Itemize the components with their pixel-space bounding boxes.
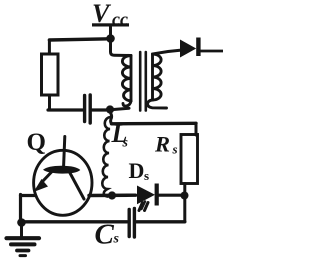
transformer T1 primary coil <box>122 56 131 107</box>
ground symbol <box>7 226 40 256</box>
transistor Q base lead <box>64 137 65 167</box>
inductor Ls squiggle <box>102 117 110 197</box>
svg-text:s: s <box>144 168 149 183</box>
resistor Rs <box>181 135 198 184</box>
node base junction dot <box>106 105 114 113</box>
wire Vcc stub <box>109 27 112 35</box>
Ls label <box>111 119 129 151</box>
tick marks below Ds <box>139 202 148 211</box>
transformer T1 secondary coil <box>148 54 167 108</box>
wire base node down squiggle <box>110 113 111 124</box>
wire after D1 <box>201 50 223 53</box>
wire Rs bottom stub <box>183 184 186 222</box>
node Rs bottom junction dot <box>181 192 189 200</box>
wire secondary top to diode <box>154 50 181 54</box>
wire Ds to Rs bottom node <box>159 194 181 197</box>
diode Ds <box>137 184 159 206</box>
wire top horizontal <box>49 39 110 40</box>
transistor Q circle <box>34 150 92 215</box>
wire to capacitor C1 <box>48 108 83 111</box>
wire horizontal to Rs <box>112 122 197 126</box>
wire bottom horizontal <box>22 220 128 223</box>
wire emitter to left <box>21 194 36 197</box>
svg-text:Q: Q <box>27 129 46 156</box>
Rs label <box>154 132 178 157</box>
transistor Q collector line <box>70 173 84 199</box>
wire corner into Rs top <box>195 123 198 135</box>
svg-text:s: s <box>113 232 120 247</box>
wire Cs right to Rs bottom <box>137 220 185 223</box>
wire R1 bottom stub <box>48 96 51 110</box>
svg-text:s: s <box>172 142 178 157</box>
wire Vcc dot down to transformer primary <box>111 41 131 56</box>
Ds label <box>129 158 150 183</box>
diode D1 <box>180 38 201 58</box>
Vcc label <box>92 0 129 29</box>
svg-text:C: C <box>95 219 115 251</box>
wire left vertical down <box>19 195 22 222</box>
svg-text:D: D <box>129 158 145 183</box>
wire corner down to R1 <box>48 40 51 54</box>
Cs label <box>95 219 120 251</box>
wire collector to Ds <box>89 193 136 197</box>
node ground junction dot <box>17 218 26 227</box>
transistor Q base bar <box>43 166 80 174</box>
transistor Q emitter with arrow <box>42 172 52 183</box>
transformer T1 core <box>140 52 146 111</box>
svg-text:R: R <box>154 132 170 157</box>
capacitor C1 <box>85 95 91 123</box>
capacitor Cs <box>129 209 134 238</box>
wire C1 to base node <box>92 108 106 111</box>
svg-text:s: s <box>122 136 129 151</box>
node Vcc junction dot <box>106 34 115 43</box>
node collector junction dot <box>108 191 116 199</box>
resistor R1 <box>42 54 59 95</box>
Q label <box>27 129 46 156</box>
wire base node right under coil hook <box>114 108 130 109</box>
